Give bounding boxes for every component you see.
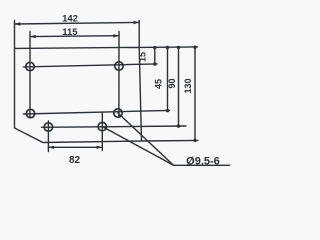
dimension line 45 (vertical) — [167, 48, 169, 111]
arrowheads 115 — [30, 35, 36, 38]
svg-text:115: 115 — [62, 27, 78, 38]
svg-text:15: 15 — [138, 52, 148, 62]
extension of bottom edge to the right — [142, 139, 199, 142]
hole H1 top-left — [26, 62, 34, 70]
wire: hole column centerline left x=30 — [29, 32, 31, 119]
dimension line 82 — [48, 146, 102, 148]
arrow dots on reference line (tops of vertical dims) — [153, 46, 156, 49]
hole H4 mid-right — [114, 109, 122, 117]
svg-text:90: 90 — [167, 78, 177, 88]
wire: hole row 1 centerline — [24, 64, 158, 67]
top edge extended right (reference line for vertical dims) — [139, 46, 197, 49]
plate outline — [15, 21, 142, 143]
dimension line 115 — [30, 35, 119, 38]
wire: hole row 2 centerline — [24, 110, 170, 114]
dimension line 142 — [15, 22, 140, 24]
leader from hole 4 to label — [118, 113, 174, 165]
leader from bottom-right hole to label — [102, 127, 173, 166]
svg-text:Ø9.5-6: Ø9.5-6 — [186, 156, 220, 168]
arrowheads 82 — [48, 146, 54, 149]
dimension line 90 (vertical) — [178, 47, 180, 126]
svg-text:130: 130 — [183, 78, 193, 93]
dimension line 130 (vertical) — [194, 47, 196, 140]
background paper — [0, 0, 232, 186]
label underline — [174, 164, 230, 166]
hole HB bottom-right — [98, 122, 106, 130]
svg-text:82: 82 — [69, 155, 81, 166]
hole HA bottom-left — [44, 123, 52, 131]
arrowheads 142 — [15, 22, 21, 25]
wire: hole row 3 centerline — [42, 126, 187, 127]
wire: vertical centerline through bottom-right hole — [101, 113, 103, 151]
dimension line 15 (vertical) — [154, 48, 156, 65]
arrow dots at bottoms of vertical dims — [153, 62, 156, 65]
svg-text:45: 45 — [153, 79, 163, 89]
svg-text:142: 142 — [62, 13, 78, 24]
wire: hole column centerline right x=119 — [118, 32, 120, 118]
wire: vertical centerline through bottom-left hole — [47, 121, 49, 152]
hole H2 top-right — [115, 62, 123, 70]
hole H3 mid-left — [26, 109, 34, 117]
